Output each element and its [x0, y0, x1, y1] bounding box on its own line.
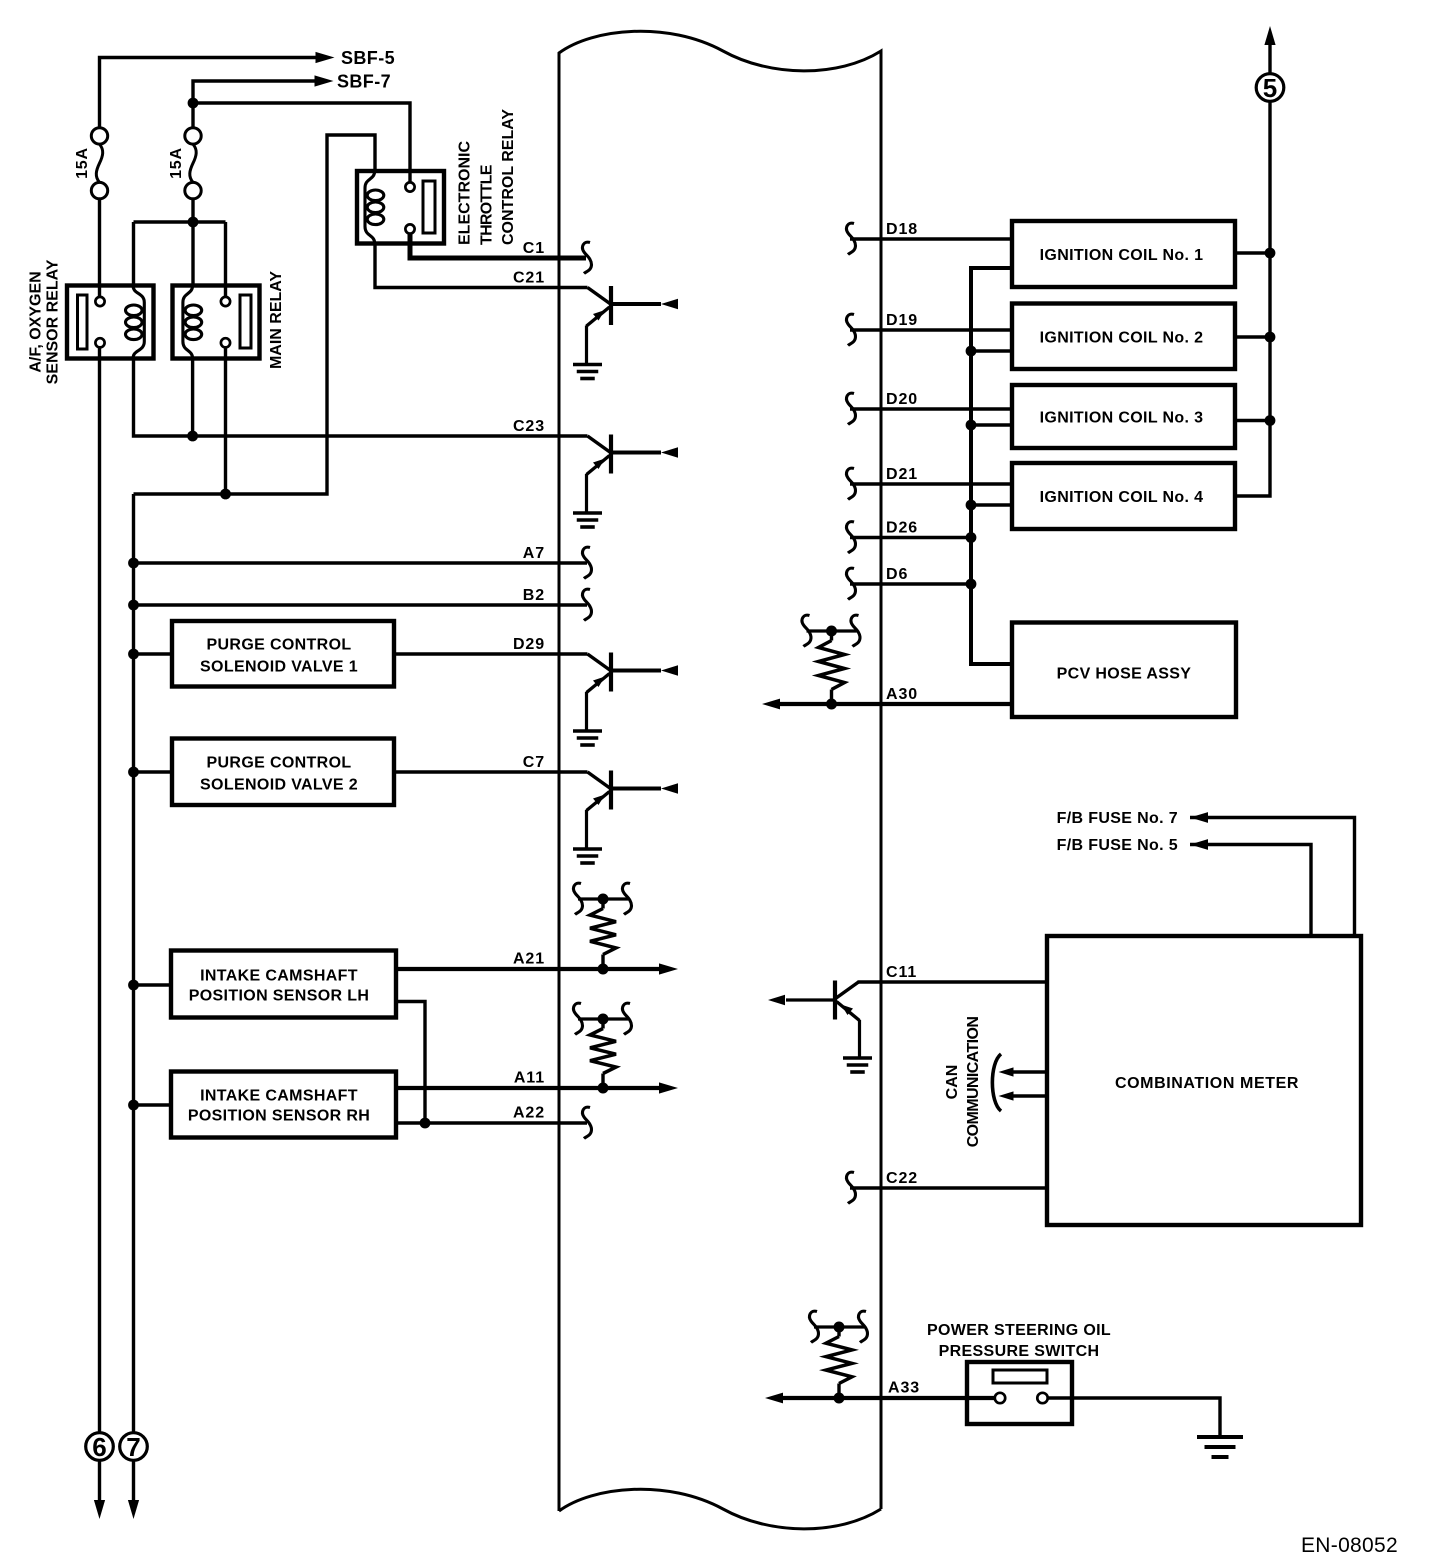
junction B2	[128, 600, 139, 611]
page ref 7	[120, 1433, 148, 1461]
wire B2	[134, 603, 588, 606]
wire C22	[850, 1186, 1047, 1189]
svg-text:IGNITION COIL No. 4: IGNITION COIL No. 4	[1040, 489, 1204, 506]
svg-text:SOLENOID VALVE 2: SOLENOID VALVE 2	[200, 777, 358, 794]
svg-text:C1: C1	[523, 240, 545, 257]
junction coil 3 low pin	[966, 420, 977, 431]
arrow page 7	[128, 1500, 139, 1519]
ignition coil supply bus	[1235, 102, 1270, 496]
svg-text:D6: D6	[886, 566, 908, 583]
page ref 6	[86, 1433, 114, 1461]
arrow A33	[765, 1393, 783, 1404]
wire A11	[396, 1086, 659, 1090]
svg-text:D20: D20	[886, 391, 918, 408]
page ref 5	[1256, 74, 1284, 102]
arrow A21	[659, 963, 678, 974]
arrow CAN 2	[999, 1091, 1014, 1100]
left bus wire	[132, 494, 135, 1433]
svg-text:D29: D29	[513, 636, 545, 653]
svg-text:ELECTRONIC: ELECTRONIC	[457, 141, 474, 245]
ignition coil ground bus	[971, 268, 1012, 664]
arrow SBF-5	[316, 52, 335, 63]
svg-text:A30: A30	[886, 686, 918, 703]
ground power steering switch	[1197, 1435, 1243, 1439]
svg-text:F/B FUSE No. 7: F/B FUSE No. 7	[1057, 810, 1178, 827]
svg-text:A7: A7	[523, 545, 545, 562]
junction coil 3 out	[1265, 415, 1276, 426]
transistor Q3 (D29 driver)	[588, 654, 611, 671]
junction coil 4 low pin	[966, 500, 977, 511]
svg-text:EN-08052: EN-08052	[1301, 1534, 1398, 1557]
resistor R4 with breaks (A33)	[814, 1325, 864, 1328]
wire bus to purge 1	[134, 652, 173, 655]
wire ignition coil 2 low pin	[971, 349, 1012, 352]
junction SBF-7/ETC relay	[188, 98, 199, 109]
PCV hose assy	[1012, 623, 1236, 718]
svg-text:D21: D21	[886, 466, 918, 483]
ECM connector block (torn outline)	[559, 31, 881, 1511]
wire main relay sw to bus	[224, 348, 227, 495]
wire F1 to A/F relay	[98, 199, 101, 297]
junction D26	[966, 532, 977, 543]
combination meter	[1047, 936, 1361, 1225]
junction coil 1 out	[1265, 248, 1276, 259]
pin break D18	[847, 223, 856, 254]
wire page 7 arrow	[132, 1460, 135, 1502]
wire CAN 1	[1013, 1070, 1047, 1073]
resistor R2 with breaks (A11 pull-up)	[578, 1017, 628, 1020]
ignition coil No. 2	[1012, 304, 1235, 370]
resistor R3 with breaks (A30)	[807, 629, 857, 632]
wire ignition coil 4 low pin	[971, 503, 1012, 506]
svg-text:C22: C22	[886, 1170, 918, 1187]
wire D26	[850, 536, 971, 539]
wire F/B fuse No.7	[1190, 818, 1355, 937]
pin break A7	[583, 547, 592, 578]
pin break B2	[583, 589, 592, 620]
purge control solenoid valve 2	[172, 739, 394, 806]
svg-text:D19: D19	[886, 312, 918, 329]
wire C11	[858, 980, 1048, 983]
svg-text:F/B FUSE No. 5: F/B FUSE No. 5	[1057, 837, 1178, 854]
junction coil 2 low pin	[966, 346, 977, 357]
ground Q3	[573, 729, 602, 733]
ground Q4	[573, 847, 602, 851]
fuse F1 15A	[91, 128, 107, 144]
pin break A22	[583, 1107, 592, 1138]
wire F/B fuse No.5	[1190, 845, 1311, 937]
arrow CAN 1	[999, 1067, 1014, 1076]
arrow page 6	[94, 1500, 105, 1519]
wire to A/F relay coil	[132, 222, 135, 287]
svg-text:D26: D26	[886, 520, 918, 537]
wire C1 (thick)	[410, 234, 586, 259]
relay K1 A/F oxygen sensor relay	[67, 286, 154, 359]
transistor Q2 (C23 driver)	[588, 436, 611, 453]
svg-text:COMBINATION METER: COMBINATION METER	[1115, 1075, 1299, 1092]
svg-text:POWER STEERING OIL: POWER STEERING OIL	[927, 1322, 1111, 1339]
wire to main relay contact	[224, 222, 227, 298]
wire sensor LH to A22	[396, 1002, 425, 1124]
wire to SBF-5	[100, 58, 317, 128]
pin break D21	[847, 468, 856, 499]
svg-text:A33: A33	[888, 1380, 920, 1397]
wire A30	[780, 702, 1012, 706]
wire main coil to C23	[191, 359, 194, 437]
pin break D20	[847, 393, 856, 424]
svg-text:COMMUNICATION: COMMUNICATION	[965, 1017, 982, 1148]
junction coil 2 out	[1265, 332, 1276, 343]
pin break D19	[847, 314, 856, 345]
wire bus to purge 2	[134, 770, 173, 773]
transistor Q1 (C21 driver)	[588, 288, 611, 305]
pin break C22	[847, 1172, 856, 1203]
wire C7	[394, 770, 588, 773]
ignition coil No. 3	[1012, 385, 1235, 448]
svg-text:SOLENOID VALVE 1: SOLENOID VALVE 1	[200, 659, 358, 676]
ground Q2	[573, 511, 602, 515]
ignition coil No. 4	[1012, 463, 1235, 529]
intake camshaft position sensor RH	[171, 1072, 396, 1138]
wire to SBF-7	[193, 81, 315, 128]
svg-text:INTAKE CAMSHAFT: INTAKE CAMSHAFT	[200, 1088, 358, 1105]
wire ignition coil 1 out	[1235, 251, 1270, 254]
svg-text:A22: A22	[513, 1105, 545, 1122]
junction sensor RH	[128, 1100, 139, 1111]
wire ignition coil 2 out	[1235, 335, 1270, 338]
relay K3 electronic throttle control relay	[357, 171, 444, 244]
junction coils C23	[187, 431, 198, 442]
svg-text:15A: 15A	[168, 147, 185, 179]
junction A22	[420, 1118, 431, 1129]
junction sensor LH	[128, 980, 139, 991]
svg-text:7: 7	[126, 1432, 140, 1462]
svg-text:IGNITION COIL No. 1: IGNITION COIL No. 1	[1040, 247, 1204, 264]
arrow A30	[762, 699, 780, 710]
resistor R1 with breaks (A21 pull-up)	[578, 897, 628, 900]
svg-text:6: 6	[92, 1432, 106, 1462]
wire C21	[375, 244, 588, 288]
svg-text:A/F, OXYGEN: A/F, OXYGEN	[28, 271, 45, 372]
svg-text:POSITION SENSOR RH: POSITION SENSOR RH	[188, 1108, 370, 1125]
wire CAN 2	[1013, 1094, 1047, 1097]
pin break D6	[847, 568, 856, 599]
wire A33	[783, 1396, 994, 1400]
arrow F/B fuse No.7	[1190, 812, 1208, 823]
wire C23	[134, 359, 588, 437]
svg-text:15A: 15A	[74, 147, 91, 179]
wire D20	[850, 407, 1012, 410]
svg-text:A21: A21	[513, 951, 545, 968]
wire D6	[850, 582, 971, 585]
svg-text:PURGE CONTROL: PURGE CONTROL	[207, 755, 352, 772]
wire ignition coil 3 low pin	[971, 423, 1012, 426]
junction purge 1	[128, 649, 139, 660]
arrow F/B fuse No.5	[1190, 839, 1208, 850]
wire page 5 arrow	[1268, 45, 1271, 74]
fuse F2 15A	[185, 128, 201, 144]
svg-text:PURGE CONTROL: PURGE CONTROL	[207, 637, 352, 654]
pin break D26	[847, 522, 856, 553]
wire D19	[850, 328, 1012, 331]
ground Q5	[843, 1056, 872, 1060]
junction A7	[128, 558, 139, 569]
svg-text:POSITION SENSOR LH: POSITION SENSOR LH	[189, 988, 370, 1005]
pin break C1	[583, 242, 592, 273]
wire A7	[134, 561, 588, 564]
svg-text:MAIN RELAY: MAIN RELAY	[268, 271, 285, 369]
intake camshaft position sensor LH	[171, 951, 396, 1018]
wire A22	[396, 1121, 587, 1124]
wire D18	[850, 237, 1012, 240]
arrow A11	[659, 1082, 678, 1093]
wire relay coil supply bus	[134, 220, 226, 223]
arrow SBF-7	[315, 75, 334, 86]
svg-text:A11: A11	[514, 1070, 545, 1087]
svg-text:THROTTLE: THROTTLE	[479, 164, 496, 245]
wire A21	[396, 967, 659, 971]
power steering oil pressure switch	[967, 1362, 1072, 1424]
relay K2 main relay	[173, 286, 260, 359]
arrow page 5	[1264, 26, 1275, 45]
svg-text:C7: C7	[523, 754, 545, 771]
junction D6	[966, 579, 977, 590]
svg-text:C11: C11	[886, 964, 917, 981]
wire page 6 arrow	[98, 1460, 101, 1502]
svg-text:D18: D18	[886, 221, 918, 238]
svg-text:IGNITION COIL No. 2: IGNITION COIL No. 2	[1040, 329, 1204, 346]
svg-text:CAN: CAN	[944, 1065, 961, 1100]
CAN bus arc	[992, 1054, 1001, 1111]
svg-text:C23: C23	[513, 418, 545, 435]
ground Q1	[573, 363, 602, 367]
svg-text:IGNITION COIL No. 3: IGNITION COIL No. 3	[1040, 410, 1204, 427]
transistor Q4 (C7 driver)	[588, 772, 611, 789]
ignition coil No. 1	[1012, 221, 1235, 287]
svg-text:B2: B2	[523, 587, 545, 604]
wire F2 to main relay coil	[191, 199, 194, 287]
svg-text:SBF-7: SBF-7	[337, 72, 391, 92]
wire D29	[394, 652, 588, 655]
svg-text:PRESSURE SWITCH: PRESSURE SWITCH	[939, 1343, 1100, 1360]
purge control solenoid valve 1	[172, 621, 394, 687]
wire ignition coil 3 out	[1235, 419, 1270, 422]
svg-text:SENSOR RELAY: SENSOR RELAY	[45, 259, 62, 384]
transistor Q5 (C11 input)	[836, 982, 859, 999]
svg-text:CONTROL RELAY: CONTROL RELAY	[500, 109, 517, 245]
wire A/F relay to page 6	[98, 348, 101, 1433]
wire D21	[850, 482, 1012, 485]
wire ETC coil supply	[134, 135, 376, 494]
junction purge 2	[128, 767, 139, 778]
wire bus to sensor LH	[134, 983, 172, 986]
junction F2 bus	[188, 217, 199, 228]
svg-text:5: 5	[1263, 73, 1277, 103]
svg-text:SBF-5: SBF-5	[341, 48, 395, 68]
wire switch to ground	[1048, 1398, 1220, 1436]
svg-text:PCV HOSE ASSY: PCV HOSE ASSY	[1057, 666, 1192, 683]
svg-text:C21: C21	[513, 270, 545, 287]
wire ETC relay supply	[193, 103, 410, 183]
junction main relay to bus	[220, 489, 231, 500]
svg-text:INTAKE CAMSHAFT: INTAKE CAMSHAFT	[200, 968, 358, 985]
wire bus to sensor RH	[134, 1103, 172, 1106]
